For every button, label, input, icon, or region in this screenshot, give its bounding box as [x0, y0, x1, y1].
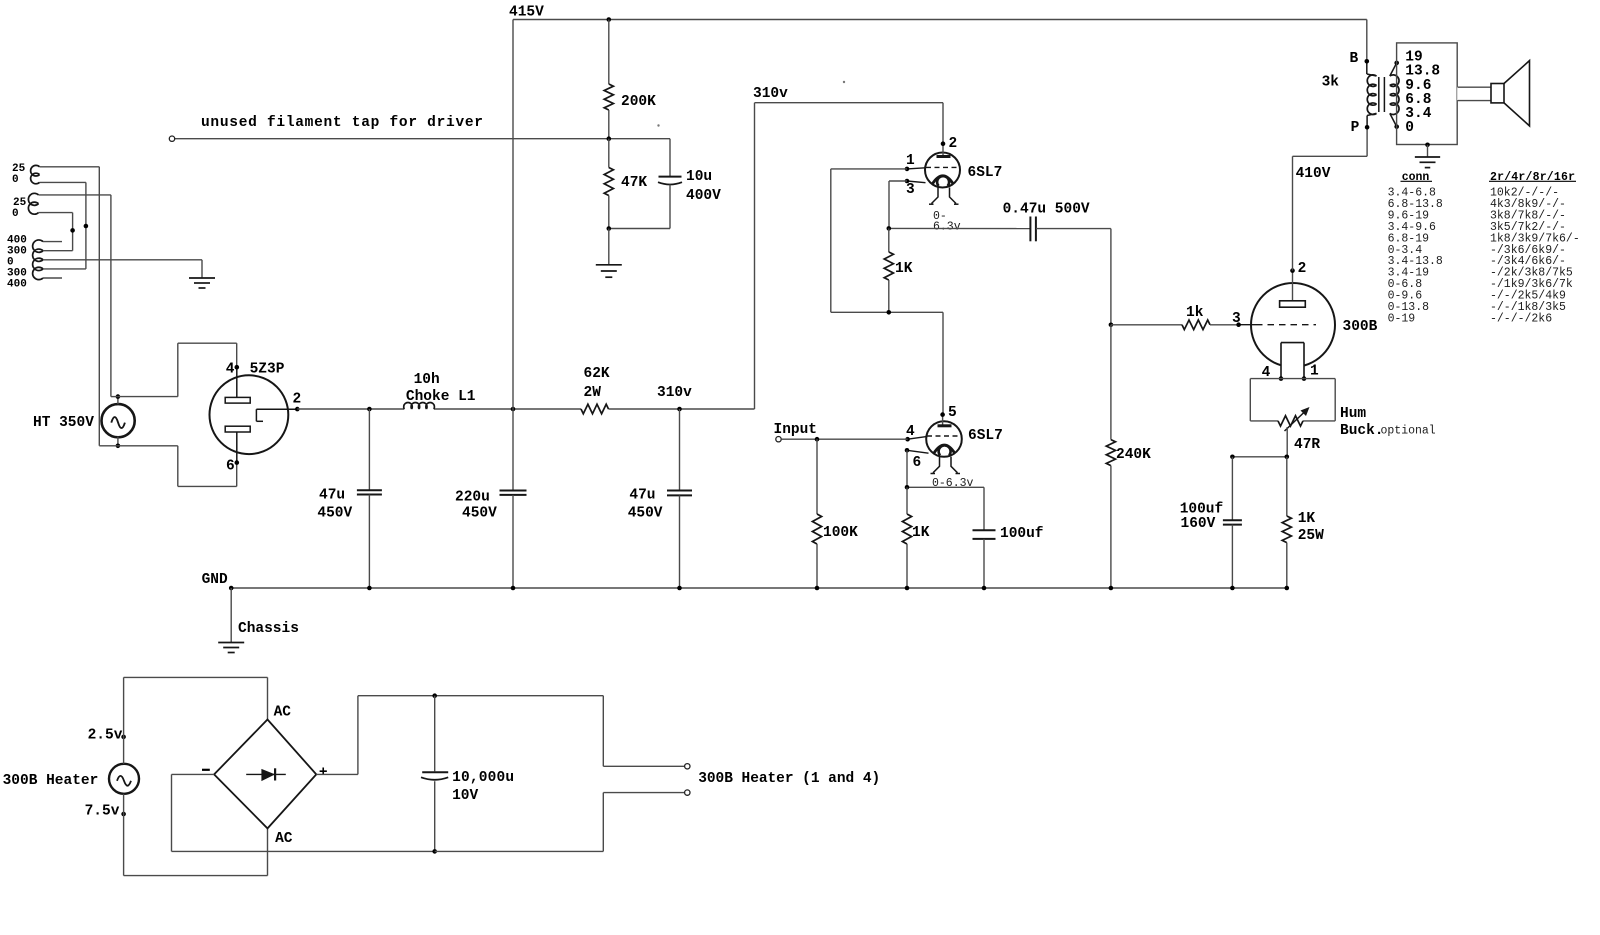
capacitor 100uf 160V — [1180, 457, 1242, 588]
node reservoir cap top — [432, 693, 437, 698]
capacitor 10,000u 10V — [421, 696, 514, 852]
output transformer secondary — [1390, 61, 1399, 129]
svg-text:300B Heater: 300B Heater — [3, 773, 99, 789]
wire bridge plus path — [316, 696, 603, 775]
svg-text:Choke L1: Choke L1 — [406, 389, 476, 405]
rectifier tube 5Z3P — [210, 362, 302, 475]
resistor 1K lower cathode — [902, 487, 929, 588]
power tube 300B — [1232, 261, 1378, 381]
label 410V — [1296, 166, 1331, 182]
svg-text:1: 1 — [1310, 364, 1319, 380]
svg-text:2W: 2W — [584, 385, 602, 401]
svg-text:47K: 47K — [621, 175, 647, 191]
svg-text:62K: 62K — [584, 366, 610, 382]
label 310v top — [753, 86, 788, 102]
svg-text:6: 6 — [913, 455, 922, 471]
svg-text:P: P — [1351, 120, 1360, 136]
wire 410V plate lead — [1293, 127, 1368, 270]
AC source HT 350V — [33, 394, 135, 448]
ground divider — [596, 229, 622, 278]
svg-text:1k: 1k — [1186, 305, 1204, 321]
wire bridge minus path — [172, 774, 435, 851]
node divider bottom — [607, 226, 612, 231]
svg-text:3k: 3k — [1322, 74, 1340, 90]
resistor 200K — [604, 20, 656, 139]
capacitor 47u 450V first — [317, 409, 382, 588]
svg-text:2: 2 — [293, 392, 302, 408]
svg-text:200K: 200K — [621, 94, 656, 110]
svg-text:160V: 160V — [1181, 516, 1216, 532]
svg-text:0-6.3v: 0-6.3v — [932, 477, 974, 490]
svg-text:25W: 25W — [1298, 528, 1324, 544]
speck — [657, 81, 845, 127]
node GND rail junctions — [229, 586, 1289, 591]
svg-text:400V: 400V — [686, 188, 721, 204]
svg-text:220u: 220u — [455, 490, 490, 506]
svg-text:47u: 47u — [319, 488, 345, 504]
wire 2.5V(a) top tap to HT bottom — [40, 167, 100, 446]
resistor 62K 2W — [581, 366, 610, 414]
wire 2.5V(b) top tap to HT top — [39, 195, 111, 397]
output transformer tap box — [1397, 43, 1460, 145]
svg-text:450V: 450V — [628, 506, 663, 522]
power transformer winding 2.5V (a) — [12, 163, 40, 186]
svg-text:6.3v: 6.3v — [933, 221, 961, 234]
node 1K top — [887, 226, 892, 231]
node 47u-2 junction — [677, 407, 682, 412]
svg-text:6: 6 — [226, 458, 235, 474]
ground chassis — [202, 572, 299, 653]
wire lower cathode — [907, 450, 984, 530]
svg-text:7.5v: 7.5v — [85, 804, 120, 820]
svg-text:310v: 310v — [753, 86, 788, 102]
node 300B grid network — [1109, 323, 1114, 328]
node filament tap / divider — [607, 136, 612, 141]
svg-text:0: 0 — [12, 208, 19, 220]
svg-text:300B Heater (1 and 4): 300B Heater (1 and 4) — [698, 771, 880, 787]
svg-text:10h: 10h — [414, 372, 440, 388]
wire B+ rail — [297, 103, 943, 409]
triode 6SL7 lower — [905, 405, 1003, 490]
wire HT top to 5Z3P pin 4 — [111, 343, 237, 396]
svg-text:-/-/-/2k6: -/-/-/2k6 — [1490, 312, 1552, 325]
resistor 1K 25W — [1282, 457, 1324, 588]
wire 415V rail — [513, 20, 1367, 410]
node 100K top — [815, 437, 820, 442]
svg-text:310v: 310v — [657, 385, 692, 401]
wire heater output — [435, 696, 684, 852]
svg-text:5: 5 — [948, 405, 957, 421]
wire 2.5V(a) 0 tap down — [40, 182, 86, 269]
svg-text:AC: AC — [275, 831, 293, 847]
wire speaker leads — [1458, 87, 1491, 100]
svg-text:10,000u: 10,000u — [452, 770, 514, 786]
wire HV 300 bottom tap — [43, 268, 86, 270]
power transformer HV winding 400-300-0-300-400 — [7, 235, 43, 291]
svg-text:47R: 47R — [1294, 437, 1320, 453]
wire HV 300 top tap — [43, 250, 73, 252]
terminal 300B heater output — [685, 764, 881, 796]
svg-text:4: 4 — [226, 362, 235, 378]
svg-text:HT 350V: HT 350V — [33, 415, 94, 431]
svg-text:4: 4 — [906, 424, 915, 440]
svg-text:1K: 1K — [895, 261, 913, 277]
node 47u-1 junction — [367, 407, 372, 412]
svg-text:450V: 450V — [317, 506, 352, 522]
label 415V — [509, 5, 544, 21]
svg-text:2: 2 — [1298, 261, 1307, 277]
svg-text:1: 1 — [906, 153, 915, 169]
svg-text:GND: GND — [202, 572, 228, 588]
wire heater transformer loop — [124, 677, 268, 875]
wire GND rail — [231, 587, 1287, 589]
output transformer core — [1379, 77, 1385, 112]
svg-text:B: B — [1350, 51, 1359, 67]
svg-text:1K: 1K — [912, 525, 930, 541]
resistor 100K — [812, 439, 858, 588]
svg-text:0: 0 — [12, 174, 19, 186]
svg-text:3: 3 — [1232, 311, 1241, 327]
node winding junction b — [70, 228, 75, 233]
wire hum buck wiper — [1230, 427, 1289, 459]
wire HV 400 bottom stub — [43, 277, 62, 279]
svg-text:Chassis: Chassis — [238, 621, 299, 637]
capacitor 0.47u 500V — [1003, 202, 1090, 242]
resistor 47K — [604, 139, 647, 229]
svg-text:3: 3 — [906, 182, 915, 198]
svg-text:400: 400 — [7, 279, 27, 291]
svg-text:Buck.: Buck. — [1340, 423, 1384, 439]
wire unused filament tap line — [169, 136, 670, 141]
svg-text:10V: 10V — [452, 788, 478, 804]
triode 6SL7 upper — [905, 136, 1003, 234]
svg-text:240K: 240K — [1116, 447, 1151, 463]
capacitor 100uf bypass — [973, 526, 1044, 588]
svg-text:Input: Input — [774, 422, 818, 438]
svg-text:+: + — [319, 765, 328, 781]
wire coupling cap to 300B grid — [1036, 229, 1111, 325]
wire upper grid to lower plate — [831, 169, 943, 415]
node 220u junction — [511, 407, 516, 412]
node 1K bottom — [887, 310, 892, 315]
svg-text:0-19: 0-19 — [1388, 312, 1416, 325]
svg-text:5Z3P: 5Z3P — [250, 362, 285, 378]
speaker — [1491, 61, 1530, 126]
svg-text:100uf: 100uf — [1000, 526, 1044, 542]
label 310v at B+ node — [657, 385, 692, 401]
wire HT bottom to 5Z3P pin 6 — [99, 446, 236, 487]
svg-text:300B: 300B — [1343, 319, 1378, 335]
svg-text:410V: 410V — [1296, 166, 1331, 182]
svg-text:450V: 450V — [462, 506, 497, 522]
resistor 240K — [1106, 325, 1151, 588]
wire HV 400 top stub — [43, 241, 62, 243]
wire HV 0 centre tap — [43, 260, 202, 278]
resistor 1K upper cathode — [884, 228, 913, 312]
svg-text:optional: optional — [1381, 425, 1436, 438]
svg-text:6SL7: 6SL7 — [968, 428, 1003, 444]
terminal Input — [774, 422, 908, 442]
output transformer 3k primary — [1322, 20, 1377, 137]
ground OT secondary — [1415, 143, 1440, 168]
node winding junction a — [84, 224, 89, 229]
label unused filament tap — [201, 115, 483, 131]
wire upper cathode node — [889, 181, 1030, 229]
svg-text:47u: 47u — [629, 488, 655, 504]
capacitor 10u 400V — [609, 139, 721, 229]
inductor choke L1 10h — [404, 372, 476, 409]
svg-text:415V: 415V — [509, 5, 544, 21]
svg-text:1K: 1K — [1298, 511, 1316, 527]
svg-text:AC: AC — [274, 705, 292, 721]
node 200K top — [607, 17, 612, 22]
node lower cathode — [905, 485, 910, 490]
capacitor 220u 450V — [455, 409, 527, 588]
AC source 300B heater winding — [3, 727, 139, 819]
svg-text:0: 0 — [1405, 120, 1414, 136]
ground HV centre tap — [189, 278, 215, 288]
svg-text:10u: 10u — [686, 169, 712, 185]
svg-text:0.47u 500V: 0.47u 500V — [1003, 202, 1090, 218]
capacitor 47u 450V second — [628, 409, 692, 588]
table speaker connections — [1388, 171, 1580, 326]
power transformer winding 2.5V (b) — [12, 193, 39, 220]
svg-text:unused filament tap for driver: unused filament tap for driver — [201, 115, 483, 131]
node reservoir cap bottom — [432, 849, 437, 854]
resistor 1k grid stopper — [1111, 305, 1239, 330]
svg-text:6SL7: 6SL7 — [968, 165, 1003, 181]
svg-text:Hum: Hum — [1340, 406, 1366, 422]
svg-text:2: 2 — [949, 136, 958, 152]
hum buck pot 47R — [1250, 379, 1436, 453]
svg-text:2.5v: 2.5v — [88, 727, 123, 743]
bridge rectifier — [202, 705, 328, 848]
svg-text:100K: 100K — [823, 525, 858, 541]
wire 2.5V(b) 0 tap down — [39, 213, 73, 251]
